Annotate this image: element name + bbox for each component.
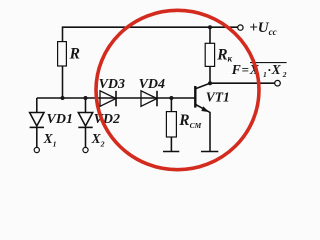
svg-text:2: 2 xyxy=(282,70,287,79)
resistor RK xyxy=(205,43,214,66)
resistor RCM leads xyxy=(170,98,172,152)
transistor VT1 base bar xyxy=(194,86,196,108)
svg-text:F: F xyxy=(231,62,241,77)
node junction VD2 bus xyxy=(84,96,88,100)
svg-text:R: R xyxy=(69,46,80,63)
transistor VT1 emitter xyxy=(196,105,210,152)
svg-text:VD2: VD2 xyxy=(94,112,120,127)
diode VD1 xyxy=(30,98,44,147)
svg-text:VD1: VD1 xyxy=(47,112,73,127)
terminal X1 circle xyxy=(34,147,39,152)
resistor R xyxy=(58,42,67,66)
output terminal circle xyxy=(275,80,281,86)
ground under RCM xyxy=(163,151,179,153)
wire output xyxy=(210,82,275,84)
svg-text:1: 1 xyxy=(263,70,267,79)
diode VD4 xyxy=(141,91,157,107)
emitter arrow xyxy=(201,106,209,112)
svg-text:VD4: VD4 xyxy=(139,77,165,92)
svg-text:X: X xyxy=(271,62,282,77)
diode VD2 xyxy=(78,98,92,147)
diode VD3 xyxy=(100,91,116,107)
red highlight ellipse xyxy=(96,10,259,169)
node junction collector xyxy=(208,81,212,85)
node junction RK top xyxy=(208,25,212,29)
terminal X2 circle xyxy=(83,147,88,152)
wire input bus xyxy=(37,97,195,99)
overline for F equation xyxy=(250,62,287,64)
transistor VT1 collector xyxy=(196,66,210,88)
ground under emitter xyxy=(201,151,218,153)
svg-text:VD3: VD3 xyxy=(99,77,125,92)
resistor RK lead xyxy=(209,27,211,43)
wire top rail xyxy=(63,27,238,98)
node junction RCM bus xyxy=(169,96,173,100)
resistor RCM xyxy=(166,112,176,137)
supply terminal circle xyxy=(238,25,243,30)
node junction R bus xyxy=(61,96,65,100)
svg-text:VT1: VT1 xyxy=(206,90,230,105)
svg-text:=: = xyxy=(242,62,249,77)
